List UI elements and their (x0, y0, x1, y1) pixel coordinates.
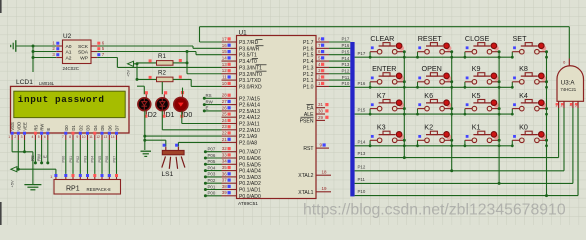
U1 ALE pin (304, 108, 329, 118)
U1 XTAL2 pin (298, 169, 331, 179)
svg-text:P3.3/INT1: P3.3/INT1 (239, 65, 262, 71)
wire +5V to R1 R2 (134, 62, 157, 79)
svg-text:K9: K9 (472, 64, 481, 73)
svg-text:input password: input password (18, 94, 105, 105)
wire U3 output to P3.7 (200, 41, 222, 43)
svg-text:P00: P00 (208, 191, 216, 196)
svg-text:P13: P13 (341, 62, 349, 67)
svg-text:P3.6/WR: P3.6/WR (239, 46, 260, 52)
wire keypad row P16 (355, 81, 513, 87)
svg-text:RW: RW (36, 154, 41, 161)
wire LCD VEE to ground (23, 140, 26, 153)
svg-text:P16: P16 (358, 81, 366, 86)
svg-text:27: 27 (222, 99, 228, 104)
svg-text:U2: U2 (63, 33, 72, 40)
wire keypad column net P13 (355, 108, 559, 158)
LED D2 (138, 91, 157, 119)
svg-text:P1.7: P1.7 (303, 40, 314, 46)
svg-text:14: 14 (222, 55, 228, 60)
svg-text:P1.2: P1.2 (303, 72, 314, 78)
wire keypad column 3 (498, 52, 501, 185)
svg-text:D3: D3 (86, 125, 91, 131)
resistor pack RP1 RESPACK-8 (50, 174, 120, 194)
svg-text:K4: K4 (519, 91, 528, 100)
svg-text:VDD: VDD (16, 122, 21, 131)
wire net P11 to bus (329, 75, 350, 80)
svg-text:R2: R2 (158, 70, 166, 77)
svg-text:P05: P05 (98, 156, 102, 163)
svg-text:P04: P04 (208, 165, 216, 170)
svg-text:U1: U1 (239, 29, 248, 36)
U1 EA pin (307, 102, 329, 112)
svg-text:22: 22 (222, 131, 228, 136)
svg-text:P12: P12 (341, 68, 349, 73)
wire D2 anode to +5V (136, 78, 145, 94)
wire net P14 to bus (329, 56, 350, 61)
svg-text:11: 11 (222, 75, 227, 80)
svg-text:D6: D6 (107, 125, 112, 131)
wire net P00 (U1 side) (204, 191, 222, 198)
svg-text:WP: WP (80, 56, 88, 62)
svg-text:P04: P04 (91, 156, 95, 163)
svg-text:D1: D1 (71, 125, 76, 131)
svg-text:P2.3/A11: P2.3/A11 (239, 122, 260, 128)
svg-text:CLOSE: CLOSE (465, 34, 490, 43)
svg-text:4: 4 (32, 135, 34, 139)
EEPROM U2 24C02C (52, 33, 104, 71)
push button CLEAR (369, 34, 406, 59)
svg-text:P1.6: P1.6 (303, 46, 314, 52)
svg-text:P11: P11 (358, 177, 366, 182)
power +5V terminal (pullups) (126, 61, 134, 77)
wire U2 A2 net (32, 56, 57, 59)
wire LCD D7 / net P07 (112, 140, 116, 174)
svg-text:P0.0/AD0: P0.0/AD0 (239, 194, 261, 200)
svg-text:11: 11 (89, 135, 93, 139)
bus P1 (blue) (350, 42, 354, 196)
svg-text:5: 5 (38, 135, 40, 139)
U1 port P1 pins (303, 36, 329, 90)
svg-text:RW: RW (40, 124, 45, 131)
svg-text:6: 6 (44, 135, 46, 139)
svg-text:P2.0/A8: P2.0/A8 (239, 140, 257, 146)
wire net P17 to bus (329, 37, 350, 42)
svg-text:P01: P01 (69, 156, 73, 163)
wire keypad column 2 (450, 52, 453, 173)
svg-text:24: 24 (222, 118, 228, 123)
svg-text:37: 37 (222, 178, 228, 183)
svg-text:A2: A2 (66, 56, 72, 62)
svg-text:30: 30 (318, 108, 324, 113)
svg-text:D2: D2 (78, 125, 83, 131)
svg-text:P06: P06 (105, 156, 109, 163)
wire net P02 (U1 side) (204, 178, 222, 185)
svg-text:P0.6/AD6: P0.6/AD6 (239, 156, 261, 162)
svg-text:https://blog.csdn.net/zbl12345: https://blog.csdn.net/zbl12345678910 (303, 201, 566, 218)
svg-text:P3.0/RXD: P3.0/RXD (239, 84, 262, 90)
LED D1 (156, 91, 175, 119)
wire SDA net (97, 50, 221, 55)
svg-text:10: 10 (222, 81, 228, 86)
wire U2 A1 net (32, 50, 57, 53)
svg-text:A1: A1 (66, 50, 72, 56)
wire D2 cathode to P2.1 (143, 111, 221, 150)
wire keypad column 1 (403, 52, 406, 159)
svg-text:26: 26 (222, 105, 228, 110)
svg-text:P06: P06 (208, 153, 216, 158)
svg-text:VSS: VSS (10, 122, 15, 131)
wire LCD D4 / net P04 (91, 140, 95, 174)
wire net P07 (U1 side) (204, 147, 222, 154)
push button ENTER (369, 64, 406, 89)
wire LCD D3 / net P03 (83, 140, 87, 174)
svg-text:7: 7 (62, 135, 64, 139)
svg-text:P17: P17 (358, 51, 366, 56)
svg-text:P10: P10 (341, 81, 349, 86)
wire LCD D6 / net P06 (105, 140, 109, 174)
svg-text:28: 28 (222, 93, 228, 98)
svg-text:D0: D0 (183, 112, 192, 119)
svg-text:16: 16 (222, 43, 228, 48)
resistor R2 (149, 70, 182, 82)
svg-text:E: E (43, 155, 48, 158)
push button K1 (464, 123, 501, 148)
svg-text:P01: P01 (208, 184, 216, 189)
svg-text:P0.2/AD2: P0.2/AD2 (239, 181, 261, 187)
svg-text:SET: SET (513, 34, 528, 43)
svg-text:P3.1/TXD: P3.1/TXD (239, 78, 261, 84)
wire net P06 (U1 side) (204, 153, 222, 160)
wire keypad column net P10 (355, 108, 578, 196)
U1 PSEN pin (300, 115, 329, 125)
svg-text:P0.3/AD3: P0.3/AD3 (239, 175, 261, 181)
svg-text:P1.5: P1.5 (303, 53, 314, 59)
svg-text:EA: EA (307, 106, 314, 112)
svg-text:1: 1 (8, 135, 10, 139)
svg-text:U3:A: U3:A (561, 79, 576, 86)
svg-text:P17: P17 (341, 37, 349, 42)
wire net RW (U1 side) (203, 99, 222, 106)
svg-text:RS: RS (206, 93, 212, 98)
wire +5V rail to RP1 pin1 (17, 168, 56, 177)
svg-text:13: 13 (104, 135, 108, 139)
svg-text:P3.4/T0: P3.4/T0 (239, 59, 257, 65)
svg-text:19: 19 (322, 186, 328, 191)
svg-text:32: 32 (222, 146, 228, 151)
svg-text:D1: D1 (166, 112, 175, 119)
wire net P16 to bus (329, 43, 350, 48)
svg-text:39: 39 (222, 190, 228, 195)
svg-text:17: 17 (222, 36, 228, 41)
svg-text:31: 31 (318, 102, 324, 107)
svg-text:RESET: RESET (418, 34, 443, 43)
svg-text:P02: P02 (76, 156, 80, 163)
ground symbol (left of U2, rotated) (11, 40, 33, 52)
svg-text:P16: P16 (341, 43, 349, 48)
push button K6 (416, 91, 453, 116)
svg-text:K5: K5 (472, 91, 481, 100)
svg-text:3: 3 (21, 135, 23, 139)
wire R2 to RXD pin (173, 79, 222, 86)
push button CLOSE (464, 34, 501, 59)
svg-text:P03: P03 (83, 156, 87, 163)
wire LCD D2 / net P02 (76, 140, 80, 174)
svg-text:K3: K3 (377, 123, 386, 132)
wire net P10 to bus (329, 81, 350, 86)
svg-text:10: 10 (82, 135, 86, 139)
sounder LS1 (162, 144, 185, 179)
wire LCD D1 / net P01 (69, 140, 73, 174)
svg-text:P03: P03 (208, 172, 216, 177)
wire keypad column 4 (545, 52, 548, 197)
wire net RS (U1 side) (203, 93, 222, 100)
LCD LCD1 LM016L (8, 79, 129, 140)
wire SDA branch to INT0 (187, 52, 222, 74)
svg-text:P2.1/A9: P2.1/A9 (239, 134, 257, 140)
wire D0 cathode to P2.3 (182, 111, 222, 123)
svg-text:P0.5/AD5: P0.5/AD5 (239, 162, 261, 168)
svg-text:LM016L: LM016L (39, 81, 55, 86)
svg-text:K1: K1 (472, 123, 481, 132)
push button K0 (511, 123, 548, 148)
wire LCD D0 / net P00 (62, 140, 66, 174)
wire D1 anode (161, 82, 163, 94)
MCU U1 AT89C51 body (237, 29, 317, 207)
svg-text:74HC21: 74HC21 (560, 87, 576, 92)
svg-text:K7: K7 (377, 91, 386, 100)
svg-text:SDA: SDA (78, 50, 89, 56)
svg-text:23: 23 (222, 124, 228, 129)
U1 XTAL1 pin (298, 186, 331, 196)
svg-text:XTAL1: XTAL1 (298, 190, 313, 196)
svg-text:P10: P10 (358, 189, 366, 194)
svg-text:RP1: RP1 (66, 186, 80, 193)
push button OPEN (416, 64, 453, 89)
svg-text:AT89C51: AT89C51 (238, 201, 258, 207)
wire net P12 to bus (329, 68, 350, 73)
wire LS1 right pin to P2.0 (178, 142, 221, 146)
svg-text:SCK: SCK (78, 44, 89, 50)
wire keypad column net P11 (355, 108, 573, 183)
svg-text:P3.7/RD: P3.7/RD (239, 40, 259, 46)
svg-text:P0.1/AD1: P0.1/AD1 (239, 188, 261, 194)
push button K3 (369, 123, 406, 148)
svg-text:D2: D2 (148, 112, 157, 119)
ground symbol (below D2 / LS1) (141, 151, 152, 156)
wire net P01 (U1 side) (204, 184, 222, 191)
wire D0 anode (182, 88, 184, 95)
svg-text:RW: RW (206, 99, 214, 104)
svg-text:21: 21 (222, 137, 228, 142)
svg-text:LCD1: LCD1 (16, 79, 33, 86)
svg-text:R1: R1 (158, 53, 166, 60)
svg-text:ENTER: ENTER (372, 64, 396, 73)
wire D1 cathode to P2.2 (162, 111, 221, 130)
wire R1 to T1 pin (173, 61, 189, 64)
U1 port P2 pins (222, 93, 261, 147)
svg-text:8: 8 (69, 135, 71, 139)
svg-text:K8: K8 (519, 64, 528, 73)
wire U2 A0 net (32, 45, 57, 48)
svg-text:P3.5/T1: P3.5/T1 (239, 53, 257, 59)
svg-text:P2.5/A13: P2.5/A13 (239, 109, 260, 115)
svg-text:P14: P14 (341, 56, 349, 61)
svg-text:P11: P11 (342, 75, 350, 80)
U1 port P3 pins (222, 36, 267, 90)
svg-text:38: 38 (222, 184, 228, 189)
svg-text:25: 25 (222, 112, 228, 117)
svg-text:P3.2/INT0: P3.2/INT0 (239, 72, 262, 78)
svg-text:P07: P07 (112, 156, 116, 163)
push button K8 (511, 64, 548, 89)
svg-text:+5V: +5V (126, 69, 131, 77)
resistor R1 (149, 53, 182, 65)
wire keypad row P14 (355, 139, 513, 145)
svg-text:13: 13 (222, 62, 228, 67)
svg-text:14: 14 (111, 135, 115, 139)
wire U2 address ground vertical (32, 46, 34, 72)
wire net P04 (U1 side) (204, 165, 222, 172)
push button K4 (511, 91, 548, 116)
svg-text:12: 12 (96, 135, 100, 139)
svg-text:29: 29 (318, 115, 324, 120)
svg-text:D5: D5 (100, 125, 105, 131)
svg-text:D7: D7 (115, 125, 120, 131)
svg-text:K0: K0 (519, 123, 528, 132)
push button K9 (464, 64, 501, 89)
push button SET (511, 34, 548, 59)
svg-text:E: E (46, 128, 51, 131)
wire WP net (97, 58, 221, 68)
wire LCD VDD to +5V (17, 140, 19, 169)
wire net P05 (U1 side) (204, 159, 222, 166)
wire LCD D5 / net P05 (98, 140, 102, 174)
power +5V terminal (LCD) (9, 167, 17, 188)
svg-text:P2.4/A12: P2.4/A12 (239, 115, 260, 121)
svg-text:D0: D0 (64, 125, 69, 131)
wire net E (U1 side) (203, 106, 222, 113)
svg-text:2: 2 (14, 135, 16, 139)
wire to LS1 left pin (143, 139, 166, 147)
push button K2 (416, 123, 453, 148)
svg-text:P00: P00 (62, 156, 66, 163)
wire LCD E (43, 140, 50, 164)
wire net P15 to bus (329, 49, 350, 54)
wire LCD RS (30, 140, 37, 164)
svg-text:P2.7/A15: P2.7/A15 (239, 96, 260, 102)
svg-text:P1.0: P1.0 (303, 84, 314, 90)
svg-text:E: E (206, 106, 209, 111)
U1 port P0 pins (222, 146, 261, 200)
svg-text:RESPACK-8: RESPACK-8 (87, 187, 112, 192)
wire LCD RW (36, 140, 43, 164)
svg-text:LS1: LS1 (162, 171, 174, 178)
svg-text:18: 18 (322, 169, 328, 174)
svg-text:A0: A0 (66, 44, 72, 50)
svg-text:12: 12 (222, 68, 228, 73)
svg-text:OPEN: OPEN (422, 64, 442, 73)
wire LCD VSS to ground (12, 140, 33, 152)
svg-text:P02: P02 (208, 178, 216, 183)
push button RESET (416, 34, 453, 59)
svg-text:P0.4/AD4: P0.4/AD4 (239, 169, 261, 175)
svg-text:RST: RST (303, 146, 313, 152)
svg-text:PSEN: PSEN (300, 118, 314, 124)
svg-text:P07: P07 (208, 147, 216, 152)
svg-text:34: 34 (222, 159, 228, 164)
svg-text:P1.1: P1.1 (303, 78, 314, 84)
svg-text:35: 35 (222, 165, 228, 170)
svg-text:P14: P14 (358, 139, 366, 144)
svg-text:9: 9 (76, 135, 78, 139)
svg-text:P13: P13 (358, 151, 366, 156)
svg-text:K2: K2 (424, 123, 433, 132)
wire SCK net (97, 46, 221, 48)
svg-text:24C02C: 24C02C (63, 66, 80, 71)
svg-text:P05: P05 (208, 159, 216, 164)
svg-text:P2.2/A10: P2.2/A10 (239, 128, 260, 134)
svg-text:VEE: VEE (23, 122, 28, 131)
LED D0 (174, 91, 193, 119)
svg-text:P15: P15 (341, 49, 349, 54)
wire keypad row P17 (355, 51, 513, 57)
watermark (303, 201, 566, 218)
svg-text:D4: D4 (93, 125, 98, 131)
wire top feedback net (U3 output to U1 pin17) (200, 27, 570, 59)
svg-text:RS: RS (30, 155, 35, 161)
U1 RST pin (303, 143, 329, 153)
svg-text:P1.4: P1.4 (303, 59, 314, 65)
svg-text:P12: P12 (358, 164, 366, 169)
svg-text:P0.7/AD7: P0.7/AD7 (239, 150, 261, 156)
wire keypad row P15 (355, 108, 513, 114)
svg-text:33: 33 (222, 152, 228, 157)
wire net P13 to bus (329, 62, 350, 67)
svg-text:P1.3: P1.3 (303, 65, 314, 71)
wire keypad column net P12 (355, 108, 564, 171)
push button K7 (369, 91, 406, 116)
svg-text:CLEAR: CLEAR (370, 34, 394, 43)
push button K5 (464, 91, 501, 116)
wire net P03 (U1 side) (204, 172, 222, 179)
svg-text:XTAL2: XTAL2 (298, 173, 313, 179)
svg-text:RS: RS (34, 125, 39, 131)
svg-text:K6: K6 (424, 91, 433, 100)
screen edge artifacts (0, 0, 2, 225)
svg-text:+5V: +5V (9, 180, 14, 188)
ground symbol (below LCD) (24, 152, 41, 190)
svg-text:15: 15 (222, 49, 228, 54)
svg-text:P15: P15 (358, 108, 366, 113)
svg-text:36: 36 (222, 171, 228, 176)
AND gate U3:A 74HC21 (555, 59, 583, 109)
svg-text:P2.6/A14: P2.6/A14 (239, 103, 260, 109)
